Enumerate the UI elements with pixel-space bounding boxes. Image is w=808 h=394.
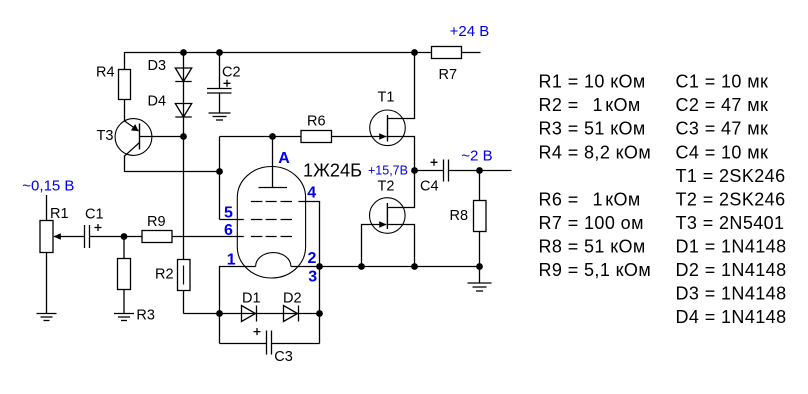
resistor R1 (potentiometer) [40,221,53,253]
resistor R7 [432,47,462,59]
wire bottom rail pins 2,3 [291,266,480,268]
capacitor C1 plates [84,225,86,248]
wire pin6 input from C1 through R9 [90,236,244,238]
svg-text:R7: R7 [439,67,458,83]
wire T1 source [388,137,415,171]
wire C2 to ground [219,93,221,113]
node junction C1-R9-R3 [121,233,128,240]
ground R3 [114,313,134,315]
svg-text:4: 4 [307,185,316,202]
ground C2 [209,112,231,114]
wire C3 bottom left [220,343,267,345]
wire D-string vertical D3 D4 to R2 [183,53,185,314]
svg-text:T2: T2 [378,179,395,195]
node junction D2-pin4 branch [316,310,323,317]
component list right column [676,72,787,328]
resistor R3 [118,259,131,290]
svg-text:D1 = 1N4148: D1 = 1N4148 [676,237,787,257]
svg-text:T2 = 2SK246: T2 = 2SK246 [676,189,786,209]
svg-text:T1: T1 [378,90,395,106]
svg-text:C1: C1 [85,207,104,223]
diode D4 [175,104,191,118]
wire C2 top stub [219,53,221,89]
node junction rail-C2 [216,49,223,56]
wire T1 drain [388,53,415,119]
polarity plus C1 [95,224,102,231]
tube 1Zh24B envelope [237,167,305,279]
svg-text:C3: C3 [274,349,293,365]
node junction R8-ground [476,263,483,270]
diode D1 [242,306,256,322]
wire T2 gate [362,225,387,267]
svg-text:C3 = 47 мк: C3 = 47 мк [676,119,769,139]
wire pin5 tap [220,219,244,221]
node junction T3 collector-screen [216,168,223,175]
resistor R2 [178,260,191,291]
svg-text:6: 6 [224,222,233,239]
node junction T3 base-diode string [180,133,187,140]
tube grid row pin4 [251,202,292,237]
resistor R6 [301,131,332,143]
node ~2V junction [476,167,483,174]
transistor T1 [370,110,406,146]
svg-text:C1 = 10 мк: C1 = 10 мк [676,72,769,92]
wire R1 wiper arrow line [54,236,85,238]
polarity plus C3 [254,328,261,335]
node junction rail-D3 [180,49,187,56]
svg-text:D4 = 1N4148: D4 = 1N4148 [676,307,787,327]
svg-text:C4 = 10 мк: C4 = 10 мк [676,142,769,162]
component list left column [539,72,652,280]
svg-text:+24 В: +24 В [450,23,490,40]
capacitor C3 plates [266,331,268,355]
svg-text:R1: R1 [50,206,69,222]
capacitor C4 plates [443,160,445,182]
resistor R4 [119,70,131,100]
svg-text:C4: C4 [420,179,439,195]
svg-text:1: 1 [227,252,236,269]
wire C4 to output [449,170,512,172]
svg-text:5: 5 [224,204,233,221]
wire C4 node [415,170,444,172]
wire R2 bottom to D1 node [184,313,220,315]
svg-text:D2 = 1N4148: D2 = 1N4148 [676,260,787,280]
tube anode plate [259,187,288,189]
svg-text:R9 = 5,1 кОм: R9 = 5,1 кОм [539,260,652,280]
wire R8 vertical [479,171,481,267]
svg-text:R6: R6 [307,114,326,130]
tube cathode arc [256,253,291,267]
tube grid row pin5 [251,219,292,221]
svg-text:R8: R8 [450,208,469,224]
transistor T2 [370,198,406,234]
wire T2 source [387,225,414,267]
svg-text:D3: D3 [148,58,167,74]
resistor R9 [142,231,172,243]
svg-text:D2: D2 [283,290,302,306]
wire R1 bottom to ground [46,253,48,314]
diode D3 [175,68,191,82]
wire C3 bottom right [272,343,320,345]
wire R1 top stub [46,195,48,221]
svg-text:T1 = 2SK246: T1 = 2SK246 [676,166,786,186]
node junction T2 gate-bottom rail [358,263,365,270]
svg-text:R4 = 8,2 кОм: R4 = 8,2 кОм [539,142,652,162]
svg-text:R1 = 10 кОм: R1 = 10 кОм [539,72,646,92]
node junction anode wire [269,133,276,140]
svg-text:~0,15 В: ~0,15 В [22,178,74,195]
transistor T3 [115,119,183,157]
wire R3 branch [123,237,125,314]
svg-text:~2 В: ~2 В [461,147,492,164]
node junction rail-T1 drain [411,49,418,56]
ground R1 [37,313,57,315]
svg-text:1Ж24Б: 1Ж24Б [303,160,362,181]
svg-text:C2 = 47 мк: C2 = 47 мк [676,95,769,115]
resistor R2 inner mark [183,266,185,285]
svg-text:3: 3 [308,269,317,286]
wire screen/anode net vertical [219,137,221,220]
resistor R8 [474,201,487,232]
wire T3 collector to screen node [125,156,220,172]
node junction D1-R2-cathode [216,310,223,317]
wire anode lead [272,137,274,188]
svg-text:R3: R3 [136,308,155,324]
polarity plus C2 [224,80,231,87]
svg-text:R4: R4 [96,64,115,80]
wire top +24V rail [125,53,481,122]
svg-text:R7 = 100 ом: R7 = 100 ом [539,213,644,233]
svg-text:R3 = 51 кОм: R3 = 51 кОм [539,119,646,139]
svg-text:T3 = 2N5401: T3 = 2N5401 [676,213,785,233]
diode D2 [284,306,298,322]
polarity plus C4 [431,159,438,166]
svg-text:D4: D4 [148,93,167,109]
wire T2 drain [387,171,414,208]
svg-text:D3 = 1N4148: D3 = 1N4148 [676,284,787,304]
node +15,7V junction [411,167,418,174]
svg-text:D1: D1 [242,290,261,306]
svg-text:R8 = 51 кОм: R8 = 51 кОм [539,237,646,257]
node junction T2 source-bottom rail [411,263,418,270]
wire D1 D2 row [220,313,320,315]
ground output [479,267,481,284]
potentiometer R1 arrow [53,233,60,240]
tube grid row pin6 [251,236,292,238]
capacitor C2 plates [207,88,232,90]
wire anode to R6 to T1 gate [220,136,387,138]
svg-text:R9: R9 [147,214,166,230]
wire pin1 cathode left [220,267,256,344]
wire pin4 tap [298,202,319,344]
svg-text:A: A [278,150,290,167]
svg-text:C2: C2 [222,64,241,80]
node junction pin4-bottom rail [316,263,323,270]
svg-text:2: 2 [308,250,317,267]
svg-text:R2: R2 [155,267,174,283]
svg-text:+15,7В: +15,7В [368,164,408,178]
svg-text:T3: T3 [97,128,114,144]
